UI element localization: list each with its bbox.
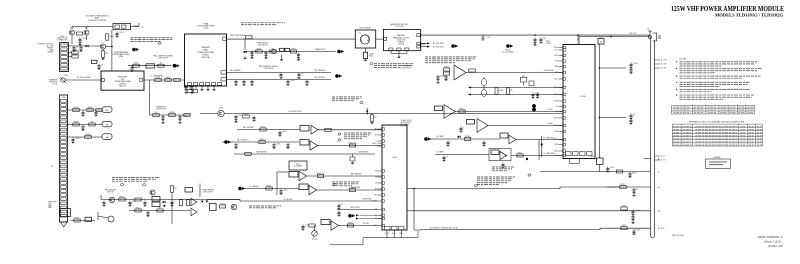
wire HF out7 [420,42,427,44]
pin J300-23 [61,190,67,193]
wire sensor drop [171,192,173,224]
capacitor C565 [531,93,539,99]
table versions [671,105,754,114]
svg-text:PA ADJUST: PA ADJUST [315,48,325,51]
svg-text:T1: T1 [483,78,485,80]
wire long bottom [414,228,651,230]
wire vsense long [407,187,620,189]
diode CR700 [163,201,166,204]
resistor R720 [347,222,353,227]
junction [599,67,601,69]
resistor R521 [371,115,377,121]
op-amp U530A [454,65,466,80]
resistor R305 [85,134,91,139]
circulator [355,30,375,48]
svg-text:R560: R560 [444,66,449,68]
pin HF bottom [389,48,393,51]
svg-text:R131: R131 [621,184,626,186]
svg-text:C303: C303 [75,138,80,140]
svg-text:Q500: Q500 [219,108,223,110]
svg-text:J300: J300 [62,97,66,99]
resistor R105 [72,49,78,54]
box res U540 [435,106,443,111]
wire to load [364,48,366,52]
svg-text:R565: R565 [499,90,504,92]
label final power amplifier [197,23,215,30]
capacitor C710 [337,204,343,210]
pin PA-6 [218,83,222,86]
capacitor C550 [446,141,452,147]
svg-text:R106: R106 [73,53,78,55]
terminal pa o/p [506,44,513,48]
capacitor C105 [130,66,133,72]
resistor R532 [245,153,251,156]
capacitor C507 [279,73,282,79]
pin J300-26 [61,202,67,205]
label voltage translator [86,15,109,22]
box T700 [209,204,216,211]
svg-text:IN1: IN1 [375,129,378,131]
wire pa keyed long [101,200,378,202]
capacitor C121 [629,68,632,74]
svg-text:PA 1 SENSE +: PA 1 SENSE + [314,69,326,72]
diode CR100 [86,45,89,48]
svg-text:R551: R551 [518,152,523,154]
capacitor C301 [94,111,97,117]
wire [200,113,218,115]
svg-text:F100: F100 [599,37,603,39]
ground [632,194,635,196]
wire [366,108,368,111]
resistor R114 [158,63,164,68]
junction [562,139,564,141]
pin J300-18 [61,169,67,172]
diode CR501 [244,51,247,54]
wire [68,45,95,47]
resistor R700 [119,196,125,201]
resistor R570 [459,108,465,113]
svg-text:C5: C5 [301,73,303,75]
wire [281,55,283,59]
wire [577,35,579,41]
legend text [709,162,727,166]
capacitor C111 [194,89,198,92]
svg-text:PA-: PA- [106,123,109,126]
pin PA sense1 [221,71,227,74]
flag note ellipse [474,184,478,187]
potentiometer R565 [481,79,486,97]
junction [610,36,612,38]
block IPA hybrid [101,71,144,90]
ground [184,91,187,93]
resistor R113 [174,79,180,82]
wire rf pwr set [466,72,563,74]
capacitor C561 [444,75,447,81]
label test point [546,41,551,45]
svg-text:U100: U100 [580,96,586,98]
junction [599,117,601,119]
svg-text:C141: C141 [610,167,615,169]
svg-text:U1: U1 [359,33,361,35]
capacitor C509 [305,80,308,86]
svg-text:R711: R711 [75,217,79,219]
resistor R505 [290,48,296,53]
resistor R550 [464,136,470,141]
wire [102,49,104,51]
block U700 [382,125,407,230]
svg-text:C545: C545 [283,189,288,191]
wire [138,23,140,27]
flag note ellipse [120,183,124,186]
label rf input [48,79,58,86]
junction [534,34,536,36]
transistor Q101 [69,30,74,35]
capacitor C141 [606,167,614,173]
label J300 [62,97,66,99]
capacitor C106 [184,85,190,91]
box U510 [289,161,307,170]
label final PA inside [197,46,214,59]
svg-text:8/3/92--UP: 8/3/92--UP [768,244,783,248]
resistor R705 [157,207,163,212]
pin J300-13 [61,149,67,152]
resistor R721 [309,224,315,227]
junction [413,188,415,190]
wire test point [337,209,378,211]
ground [533,43,536,45]
pin HF bottom [405,48,409,51]
resistor R531 [349,142,357,147]
box U500B res [300,140,309,146]
connector J300 aux [60,95,68,222]
pin HF bottom [397,48,401,51]
diode CR702 [201,201,204,203]
svg-text:R540 1%: R540 1% [317,173,325,175]
label pa current sense [259,65,279,70]
label load [369,53,374,58]
svg-text:B+ TEMP: B+ TEMP [436,136,444,138]
pin J100-3 [61,52,67,55]
wire vertical from Q100 [111,30,113,71]
wire key stub1 [360,214,383,216]
op-amp U540A [444,105,455,119]
resistor R546 [349,187,355,192]
label card edge connector [57,36,69,42]
wire strip bottom row [71,220,96,222]
resistor R566 [507,88,513,94]
circulator symbol [360,35,369,44]
label bus right [661,60,668,162]
svg-text:REFERENCE CIRCUIT POWER AND GR: REFERENCE CIRCUIT POWER AND GROUND CONNE… [689,120,745,123]
svg-text:(TPN): (TPN) [203,28,208,30]
svg-text:R140: R140 [590,156,594,158]
svg-text:BSNS: BSNS [554,139,558,141]
capacitor C704 [146,211,149,217]
wire ipa sense [128,65,171,67]
box R108 [92,60,98,63]
resistor R110 [133,63,139,68]
wire [371,114,373,115]
pin J300-2 [61,104,67,107]
wire rf adjust [455,111,563,113]
svg-text:IS: IS [375,146,377,148]
label harmonic filter inside [393,34,409,45]
svg-text:CIRCUIT: CIRCUIT [107,192,115,194]
resistor R501 [246,36,252,39]
svg-text:PA100-1: PA100-1 [119,85,126,88]
wire pa1 curr out [318,145,383,147]
svg-text:TEST POINT: TEST POINT [350,207,360,209]
svg-text:ISNS: ISNS [554,131,558,133]
label power control connector [37,44,54,54]
label pwr detect [257,43,270,47]
svg-text:U600-A: U600-A [398,43,405,46]
note sensor [112,177,160,181]
capacitor C108 [161,115,164,121]
transistor Q702 [150,190,155,195]
wire bat sense out [307,175,383,177]
wire pa bench drop [149,80,151,115]
svg-text:C520: C520 [238,115,243,117]
ground [370,121,373,123]
capacitor C30 on RF line [481,35,484,40]
resistor R568 [529,81,534,86]
wire [68,56,72,58]
svg-text:C7: C7 [341,204,343,206]
pin PA-4 [206,83,210,86]
wire [100,195,102,200]
wire pa1 sense in [222,141,299,143]
pin HF-1 [384,38,387,41]
pin J300-27 [61,206,67,209]
pin PA-3 out [223,37,226,41]
note amplifier supply [241,23,285,25]
svg-text:B+ KEY: B+ KEY [363,223,370,225]
flag note ellipse [142,183,146,186]
capacitor sense [242,80,245,86]
wire pwr detect [245,51,336,53]
svg-text:RF PWR SET: RF PWR SET [544,70,554,72]
box K700b [152,202,160,207]
wire [276,172,278,195]
svg-text:C30: C30 [487,37,490,39]
table reference connections [672,124,762,146]
wire [95,45,100,47]
wire temp out [516,139,563,141]
connector tab row3 [102,134,112,140]
ground [78,43,81,45]
wire HF bottom loop [391,51,407,56]
resistor R520 [243,113,249,118]
resistor R112 [165,77,171,82]
resistor R132 [621,205,627,210]
svg-text:B+ KEYED: B+ KEYED [284,199,294,201]
svg-text:PA 1 SENSE +: PA 1 SENSE + [237,139,249,142]
capacitor C703 [170,201,176,207]
capacitor C132 [632,188,638,194]
pin J300-7 [61,124,67,127]
svg-text:R704: R704 [136,207,141,209]
transistor Q102 [84,30,89,35]
box opamp res2 [491,150,499,155]
svg-text:PA KEYED: PA KEYED [363,197,372,200]
op-amp U500B [310,141,318,150]
resistor R562 [469,69,475,72]
arrow wire set [468,87,471,96]
junction [366,113,368,115]
ground [631,221,634,223]
ground [351,162,354,164]
svg-text:SENSE: SENSE [47,52,54,54]
capacitor C711 [337,211,340,217]
svg-text:C120: C120 [633,63,638,65]
svg-text:C1: C1 [636,188,638,190]
transistor Q701 [231,204,237,210]
connector J300 taper [61,222,68,227]
ground [297,58,300,60]
resistor R141 [616,170,622,173]
wire long A+1 [411,210,651,212]
wire [131,26,140,28]
svg-text:PARTS NOTED: PARTS NOTED [672,234,685,237]
ground [364,59,367,61]
wire [71,36,73,45]
svg-text:R570: R570 [460,108,465,110]
op-amp U720 [331,221,339,230]
capacitor C120 [629,63,637,69]
pin U700 bottom [385,226,391,230]
capacitor C700 [102,201,105,207]
resistor R302 [96,109,102,112]
resistor R704 [135,207,141,212]
svg-text:MODELS TLD3101G / TLD3102G: MODELS TLD3101G / TLD3102G [715,12,783,17]
capacitor C551 [482,141,485,147]
label intermediate power amplifier [112,51,130,58]
svg-text:B+ SW: B+ SW [661,68,666,70]
resistor R565 [495,88,503,94]
wire translator top [72,26,113,28]
resistor R100 [115,25,120,28]
wire second row [129,210,190,212]
capacitor sense [250,80,253,86]
svg-text:J101: J101 [64,75,68,77]
svg-text:R110: R110 [134,63,138,65]
svg-text:R104: R104 [109,36,114,38]
svg-text:PA 1 SENSE -: PA 1 SENSE - [314,76,326,79]
ground [264,56,267,58]
capacitor C508 [297,73,303,79]
note keyed [249,206,281,208]
capacitor C607 [539,38,545,44]
wire PA bottom stubs [190,86,214,89]
capacitor C566 [536,93,539,99]
pin squares U700 left [378,129,383,226]
svg-text:A+ SIGNAL TO DEVICE A B+ LEVEL: A+ SIGNAL TO DEVICE A B+ LEVEL [430,226,458,229]
wire temp drop [541,136,543,157]
pin J300-3 [61,108,67,111]
capacitor C135 [632,229,640,235]
wire b+ sense in [244,188,299,190]
junction dot [541,143,543,145]
svg-text:PA 1 SENSE +: PA 1 SENSE + [230,69,242,72]
capacitor C701 [128,201,136,207]
resistor R551 [517,152,523,157]
svg-text:RF OUT: RF OUT [630,33,638,35]
wire [352,154,354,157]
diode CR701 [163,205,166,207]
terminal b+ sense [238,187,245,191]
svg-text:CIRCUITRY: CIRCUITRY [203,192,214,194]
svg-text:R706: R706 [220,203,225,205]
svg-text:B+ 9.6V: B+ 9.6V [401,126,408,128]
transistor Q703 [98,212,114,222]
label sensor circuit [105,190,117,194]
svg-text:TS: TS [375,183,377,185]
svg-text:RVS: RVS [555,61,558,63]
svg-text:POINT: POINT [546,43,551,45]
svg-text:R545: R545 [267,185,272,187]
connector J100 [60,43,69,72]
current source Q704 [312,231,318,237]
svg-text:B+ RVS PWR: B+ RVS PWR [433,46,444,48]
label harmonic filter [390,23,408,28]
wire key out [339,225,378,227]
terminal temp in [424,137,431,141]
resistor R561 [443,72,449,75]
svg-text:RT 2%: RT 2% [312,239,317,241]
connector J300 shell [60,209,71,217]
svg-text:PA+: PA+ [105,109,108,112]
capacitor C502 [264,51,272,57]
resistor R711 [74,217,80,222]
capacitor C303 [71,138,79,144]
flag note ellipse [360,101,364,104]
ground [212,88,215,90]
svg-text:12.5W: 12.5W [52,84,57,86]
capacitor C712 [301,225,309,231]
terminal ipa sense out [173,64,180,68]
wire temp2 [435,154,489,156]
svg-text:BS: BS [375,189,377,191]
wire PA1 sense+ [227,72,332,74]
wire PA1 sense- [227,79,332,81]
pin J100-5 [61,60,67,63]
svg-text:(IPA): (IPA) [119,55,124,58]
svg-text:B+ FWD PWR: B+ FWD PWR [433,43,445,45]
op-amp U510B [309,185,317,194]
svg-text:PA 1 CURR: PA 1 CURR [372,142,382,145]
pin PA-1 [188,83,192,86]
label T1 [483,78,485,80]
note if supply [131,38,173,42]
pin PA sense2 [221,78,227,81]
svg-text:R132: R132 [622,205,627,207]
svg-text:IN2: IN2 [375,135,378,137]
resistor R528 [325,128,331,131]
capacitor C142 [628,172,636,178]
svg-text:C531: C531 [276,143,281,145]
capacitor C570 [459,127,465,133]
pin J300-1 [61,100,67,103]
pin J300-8 [61,128,67,131]
svg-text:COUPLER: COUPLER [394,26,404,28]
pin J300-15 [61,157,67,160]
terminal pa sense [335,74,342,78]
terminal fwd pwr [451,44,458,48]
resistor R304 [89,121,95,126]
svg-text:R300: R300 [74,107,79,109]
svg-text:R3: R3 [91,121,93,123]
